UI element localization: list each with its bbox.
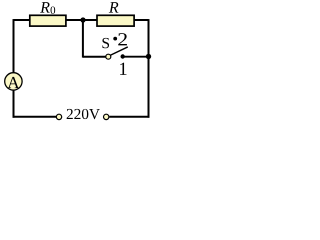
label R	[109, 2, 119, 12]
switch S: contact 1 dot	[121, 54, 125, 58]
label R0	[40, 2, 50, 12]
wire: bottom left segment to 220V terminal	[13, 116, 56, 118]
resistor R0	[30, 15, 66, 26]
label 1	[120, 63, 127, 75]
wire: switch contact 1 to right vertical	[123, 56, 149, 58]
wire: left vertical (top segment to ammeter)	[13, 19, 15, 73]
wire: right vertical	[148, 19, 150, 118]
wire: branch vertical from node A down to switch	[82, 20, 84, 58]
label 2	[118, 33, 127, 45]
switch S: contact 2 dot	[113, 37, 117, 41]
wire: branch horizontal to switch pivot	[83, 56, 106, 58]
wire: top horizontal	[14, 19, 149, 21]
source terminal left	[56, 114, 61, 119]
node A: junction dot on top wire	[80, 17, 85, 22]
label 220V	[67, 109, 73, 119]
switch S: lever	[111, 47, 128, 55]
wire: left vertical (ammeter to bottom corner)	[13, 90, 15, 118]
node B: junction dot on right vertical	[146, 54, 151, 59]
ammeter A	[5, 73, 22, 90]
source terminal right	[104, 114, 109, 119]
wire: bottom right segment from 220V terminal	[109, 116, 149, 118]
resistor R	[97, 15, 134, 26]
switch S: pivot	[106, 54, 111, 59]
label S	[102, 38, 109, 48]
